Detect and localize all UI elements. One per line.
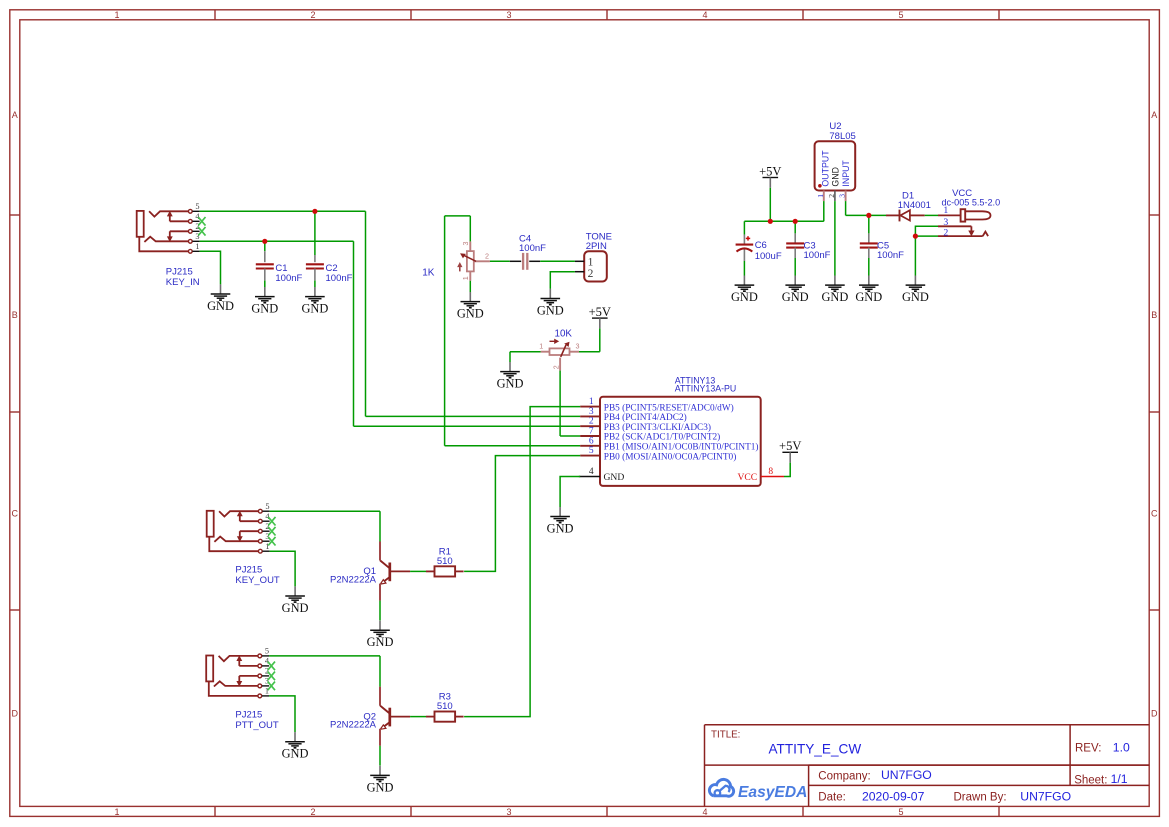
svg-text:2: 2 <box>551 365 560 369</box>
svg-text:PB4 (PCINT4/ADC2): PB4 (PCINT4/ADC2) <box>604 412 687 423</box>
svg-text:EasyEDA: EasyEDA <box>738 784 807 801</box>
svg-text:1N4001: 1N4001 <box>898 200 931 211</box>
svg-text:3: 3 <box>195 232 199 241</box>
potentiometer 10K <box>539 339 579 370</box>
svg-text:GND: GND <box>604 472 625 483</box>
power +5V (MCU VCC) <box>779 439 801 463</box>
svg-text:Sheet:: Sheet: <box>1074 774 1107 786</box>
ground (10K) <box>497 362 524 391</box>
svg-text:PB1 (MISO/AIN1/OC0B/INT0/PCINT: PB1 (MISO/AIN1/OC0B/INT0/PCINT1) <box>604 442 759 453</box>
svg-text:P2N2222A: P2N2222A <box>330 720 377 731</box>
svg-text:GND: GND <box>821 290 848 304</box>
wire KEY_OUT pin1 to ground <box>270 551 296 586</box>
wire Q2 emitter to ground <box>379 746 381 766</box>
resistor R3 510 <box>426 692 464 722</box>
ground (C3) <box>782 276 809 305</box>
svg-text:A: A <box>12 110 18 120</box>
svg-text:PB5 (PCINT5/RESET/ADC0/dW): PB5 (PCINT5/RESET/ADC0/dW) <box>604 402 734 413</box>
wire U2 output down to bus <box>823 201 825 221</box>
wire net PB5 to R3 <box>464 407 580 717</box>
svg-text:3: 3 <box>943 217 948 228</box>
svg-text:Drawn By:: Drawn By: <box>954 792 1007 804</box>
connector VCC dc-005 barrel jack <box>938 205 991 239</box>
pin 2 PB3 <box>580 425 600 427</box>
svg-text:ATTINY13A-PU: ATTINY13A-PU <box>675 384 736 394</box>
no-connect X on PJ215 pin 2 <box>268 527 275 536</box>
wire C2 to ground <box>314 281 316 287</box>
svg-text:+5V: +5V <box>759 164 781 178</box>
wire PTT_OUT pin5 to Q2 collector <box>269 655 380 657</box>
capacitor C1 100nF <box>264 251 266 262</box>
wire net PB1 horizontal to MCU pin 6 <box>445 445 581 447</box>
resistor R1 510 <box>426 547 464 577</box>
ground (C6) <box>731 276 758 305</box>
REV: 1.0 <box>1075 741 1130 755</box>
svg-text:PJ215: PJ215 <box>235 709 262 720</box>
wire net PB4 horizontal to MCU pin 3 <box>366 415 581 417</box>
wire net PB0 to R1 <box>464 456 580 572</box>
svg-text:3: 3 <box>506 807 511 817</box>
svg-text:GND: GND <box>457 307 484 321</box>
wire 10K pin3 right <box>579 351 600 353</box>
svg-text:1: 1 <box>816 194 825 198</box>
svg-text:GND: GND <box>782 290 809 304</box>
wire Q2 base to R3 <box>410 716 426 718</box>
pin 6 PB1 <box>580 445 600 447</box>
ground (1K trimmer) <box>457 292 484 321</box>
no-connect X on PJ215 pin 3 <box>268 537 275 546</box>
svg-text:P2N2222A: P2N2222A <box>330 574 377 585</box>
svg-text:D: D <box>1151 709 1158 719</box>
svg-text:3: 3 <box>265 532 269 541</box>
svg-text:2: 2 <box>943 228 948 239</box>
wire net PB2 horizontal to MCU pin 7 <box>560 435 580 437</box>
junction node C1/PB3 net <box>262 239 267 244</box>
svg-text:2: 2 <box>485 251 489 260</box>
svg-text:GND: GND <box>301 302 328 316</box>
svg-text:GND: GND <box>497 377 524 391</box>
svg-text:REV:: REV: <box>1075 743 1101 755</box>
svg-text:10K: 10K <box>555 328 573 339</box>
wire +5V output bus <box>744 220 823 222</box>
svg-text:C: C <box>1151 509 1158 519</box>
label U2 78L05 <box>829 121 855 142</box>
svg-text:4: 4 <box>702 10 707 20</box>
pin 8 VCC <box>761 476 784 478</box>
wire VCC pin3/pin2 to ground <box>915 226 938 275</box>
svg-text:PTT_OUT: PTT_OUT <box>235 720 278 731</box>
transistor Q1 P2N2222A <box>380 542 410 601</box>
ground (Q1 emitter) <box>367 621 394 650</box>
svg-text:1.0: 1.0 <box>1113 741 1130 755</box>
junction input bus / C5 <box>866 213 871 218</box>
svg-text:8: 8 <box>768 467 773 477</box>
svg-text:3: 3 <box>265 677 269 686</box>
pin 3 PB4 <box>580 415 600 417</box>
svg-text:2: 2 <box>827 194 836 198</box>
wire C3 to ground <box>794 258 796 276</box>
wire U2 input down <box>845 201 847 215</box>
Sheet: 1/1 <box>1074 772 1128 786</box>
pin 5 PB0 <box>580 455 600 457</box>
svg-text:D: D <box>11 709 18 719</box>
wire C5 to ground <box>868 258 870 276</box>
svg-text:2: 2 <box>589 417 594 427</box>
junction node C2/PB4 net <box>312 209 317 214</box>
svg-text:PB2 (SCK/ADC1/T0/PCINT2): PB2 (SCK/ADC1/T0/PCINT2) <box>604 432 720 443</box>
connector PJ215 KEY_OUT audio jack <box>207 502 271 553</box>
svg-text:PJ215: PJ215 <box>235 564 262 575</box>
connector PJ215 KEY_IN audio jack <box>137 202 201 253</box>
capacitor C5 100nF <box>860 233 904 261</box>
label Q1 P2N2222A <box>330 566 377 585</box>
wire C1 to ground <box>264 281 266 287</box>
wire Q1 emitter to ground <box>379 601 381 621</box>
svg-text:1: 1 <box>461 276 470 280</box>
svg-text:GND: GND <box>207 299 234 313</box>
svg-text:2: 2 <box>195 222 199 231</box>
capacitor C4 100nF <box>510 233 546 269</box>
svg-text:+5V: +5V <box>779 439 801 453</box>
ground (C2) <box>301 287 328 316</box>
svg-text:1: 1 <box>589 397 594 407</box>
svg-text:GND: GND <box>855 290 882 304</box>
svg-text:GND: GND <box>547 522 574 536</box>
svg-text:PB0 (MOSI/AIN0/OC0A/PCINT0): PB0 (MOSI/AIN0/OC0A/PCINT0) <box>604 451 737 462</box>
wire up to +5V <box>599 328 601 351</box>
wire 1K to net PB1 horizontal top <box>445 215 471 217</box>
svg-text:GND: GND <box>902 290 929 304</box>
wire input bus <box>846 214 886 216</box>
power +5V (regulator output) <box>759 164 781 188</box>
no-connect X on PJ215 pin 4 <box>198 217 205 226</box>
svg-text:GND: GND <box>282 601 309 615</box>
wire junction down to C2 <box>314 211 316 255</box>
svg-text:100nF: 100nF <box>877 250 904 261</box>
connector PJ215 PTT_OUT audio jack <box>206 647 270 698</box>
svg-text:GND: GND <box>367 780 394 794</box>
wire 10K pin1 down to ground <box>509 352 511 362</box>
ground (C1) <box>251 287 278 316</box>
ground (MCU) <box>547 507 574 536</box>
svg-text:5: 5 <box>265 647 269 656</box>
label PJ215 KEY_IN <box>166 267 200 289</box>
capacitor C6 100uF electrolytic <box>736 221 782 261</box>
wire KEY_OUT pin5 to Q1 collector <box>270 510 380 512</box>
pin 4 GND <box>579 476 600 478</box>
transistor Q2 P2N2222A <box>380 687 410 746</box>
svg-text:1: 1 <box>114 10 119 20</box>
no-connect X on PJ215 pin 2 <box>268 672 275 681</box>
svg-text:3: 3 <box>838 194 847 198</box>
junction +5V bus / C6 <box>768 219 773 224</box>
wire TONE pin2 to ground <box>550 272 575 289</box>
svg-text:3: 3 <box>576 341 580 350</box>
power +5V (10K) <box>589 305 611 329</box>
label VCC dc-005 5.5-2.0 <box>942 188 1001 208</box>
wire 1K pin1 to ground <box>469 281 471 292</box>
svg-text:5: 5 <box>195 202 199 211</box>
diode D1 1N4001 <box>886 210 925 222</box>
svg-text:GND: GND <box>731 290 758 304</box>
svg-text:KEY_OUT: KEY_OUT <box>235 575 280 586</box>
ground (KEY_OUT pin1) <box>282 586 309 615</box>
svg-text:100nF: 100nF <box>519 243 546 254</box>
svg-text:78L05: 78L05 <box>829 131 855 142</box>
ground (KEY_IN pin1) <box>207 284 234 313</box>
svg-text:GND: GND <box>831 167 841 187</box>
svg-text:Date:: Date: <box>818 792 846 804</box>
wire C4 to TONE pin1 <box>540 260 575 262</box>
svg-text:TITLE:: TITLE: <box>711 730 740 741</box>
ground (C5) <box>855 276 882 305</box>
wire +5V down to output bus <box>769 188 771 222</box>
svg-text:510: 510 <box>437 701 453 712</box>
svg-text:UN7FGO: UN7FGO <box>1020 789 1071 803</box>
wire MCU VCC to +5V <box>784 463 790 477</box>
label ATTINY13 / ATTINY13A-PU <box>675 376 736 394</box>
capacitor C3 100nF <box>786 233 830 261</box>
svg-text:GND: GND <box>367 635 394 649</box>
svg-text:3: 3 <box>589 407 594 417</box>
svg-text:100nF: 100nF <box>275 273 302 284</box>
wire junction down to C1 <box>264 241 266 251</box>
svg-text:5: 5 <box>898 10 903 20</box>
svg-text:C: C <box>11 509 18 519</box>
svg-text:1: 1 <box>265 542 269 551</box>
svg-text:B: B <box>12 310 18 320</box>
IC U1 ATTINY13 ATTINY13A-PU <box>579 397 784 486</box>
wire KEY_IN pin5 to net PB4 (row y=211) <box>200 210 366 212</box>
svg-text:6: 6 <box>589 436 594 446</box>
trimmer resistor 1K <box>458 241 490 280</box>
wire KEY_IN pin3 to net PB3 (row y=241) <box>200 240 354 242</box>
svg-text:C6: C6 <box>755 240 767 251</box>
svg-text:Company:: Company: <box>818 771 870 783</box>
svg-text:B: B <box>1151 310 1157 320</box>
label TONE 2PIN <box>586 231 612 252</box>
ground (PTT_OUT pin1) <box>282 732 309 761</box>
pin 7 PB2 <box>580 435 600 437</box>
wire VCC pin2 <box>915 235 938 237</box>
svg-text:510: 510 <box>437 556 453 567</box>
svg-text:GND: GND <box>282 747 309 761</box>
svg-text:A: A <box>1151 110 1157 120</box>
svg-text:7: 7 <box>589 427 594 437</box>
svg-text:2: 2 <box>588 268 594 280</box>
wire 1K pin3 up <box>469 216 471 242</box>
svg-text:PB3 (PCINT3/CLKI/ADC3): PB3 (PCINT3/CLKI/ADC3) <box>604 422 711 433</box>
svg-text:100nF: 100nF <box>326 273 353 284</box>
svg-text:1: 1 <box>114 807 119 817</box>
svg-text:+5V: +5V <box>589 305 611 319</box>
label PJ215 PTT_OUT <box>235 709 278 731</box>
svg-text:1: 1 <box>195 242 199 251</box>
svg-text:2PIN: 2PIN <box>586 241 607 252</box>
wire bus down to C5 <box>868 215 870 233</box>
ground (VCC jack) <box>902 276 929 305</box>
ground (TONE) <box>537 289 564 318</box>
wire down to Q2 collector <box>379 656 381 687</box>
capacitor C2 100nF <box>314 255 316 262</box>
wire net PB1 vertical <box>444 216 446 446</box>
svg-text:VCC: VCC <box>737 472 757 483</box>
svg-text:dc-005 5.5-2.0: dc-005 5.5-2.0 <box>942 198 1001 208</box>
label PJ215 KEY_OUT <box>235 564 280 586</box>
wire net PB4 vertical <box>365 211 367 416</box>
svg-text:ATTITY_E_CW: ATTITY_E_CW <box>769 742 862 757</box>
wire bus down to C3 <box>794 221 796 233</box>
svg-text:2: 2 <box>310 10 315 20</box>
wire net PB2 vertical from 10K wiper <box>559 371 561 436</box>
svg-text:UN7FGO: UN7FGO <box>881 768 932 782</box>
svg-text:4: 4 <box>702 807 707 817</box>
no-connect X on PJ215 pin 3 <box>268 682 275 691</box>
svg-text:5: 5 <box>589 446 594 456</box>
wire U2 gnd down <box>834 201 836 275</box>
connector TONE 2PIN <box>575 251 607 281</box>
svg-text:1: 1 <box>539 341 543 350</box>
svg-text:2: 2 <box>310 807 315 817</box>
wire D1 to VCC jack pin1 <box>925 214 938 216</box>
junction VCC pin2 / ground <box>913 234 918 239</box>
svg-text:100nF: 100nF <box>804 250 831 261</box>
wire 1K wiper to C4 <box>490 260 510 262</box>
svg-text:GND: GND <box>251 302 278 316</box>
label D1 1N4001 <box>898 191 931 212</box>
svg-text:1: 1 <box>588 256 594 268</box>
svg-text:1K: 1K <box>422 268 435 279</box>
title block <box>705 725 1150 807</box>
svg-text:2: 2 <box>265 667 269 676</box>
wire Q1 base to R1 <box>410 570 426 572</box>
wire KEY_IN pin1 to ground <box>200 251 221 284</box>
Company: UN7FGO <box>818 768 931 783</box>
wire 10K pin1 left <box>510 351 541 353</box>
svg-text:2020-09-07: 2020-09-07 <box>862 789 925 803</box>
wire net PB3 vertical <box>353 241 355 426</box>
svg-text:3: 3 <box>506 10 511 20</box>
label Q2 P2N2222A <box>330 711 377 730</box>
junction +5V bus / C3 <box>793 219 798 224</box>
no-connect X on PJ215 pin 4 <box>268 662 275 671</box>
ground (U2) <box>821 276 848 305</box>
Date: 2020-09-07 Drawn By: UN7FGO <box>818 789 1071 803</box>
ground (Q2 emitter) <box>367 766 394 795</box>
svg-text:OUTPUT: OUTPUT <box>821 150 831 187</box>
no-connect X on PJ215 pin 2 <box>198 227 205 236</box>
title text TITLE: ATTITY_E_CW <box>711 730 861 757</box>
svg-text:1/1: 1/1 <box>1111 772 1128 786</box>
svg-text:KEY_IN: KEY_IN <box>166 277 200 288</box>
wire PTT_OUT pin1 to ground <box>269 696 295 732</box>
no-connect X on PJ215 pin 4 <box>268 517 275 526</box>
svg-text:4: 4 <box>589 467 594 477</box>
EasyEDA logo <box>709 779 807 801</box>
wire down to Q1 collector <box>379 511 381 541</box>
svg-text:5: 5 <box>265 502 269 511</box>
svg-text:INPUT: INPUT <box>841 160 851 187</box>
svg-text:PJ215: PJ215 <box>166 267 193 278</box>
svg-text:100uF: 100uF <box>755 251 782 262</box>
wire MCU GND pin to ground <box>560 477 580 508</box>
svg-text:GND: GND <box>537 304 564 318</box>
svg-text:5: 5 <box>898 807 903 817</box>
wire net PB3 horizontal to MCU pin 2 <box>354 425 581 427</box>
svg-text:2: 2 <box>265 522 269 531</box>
svg-text:3: 3 <box>461 241 470 245</box>
wire C6 to ground <box>743 261 745 276</box>
svg-text:1: 1 <box>265 687 269 696</box>
pin 1 PB5 <box>580 406 600 408</box>
voltage regulator U2 78L05 <box>815 141 856 201</box>
